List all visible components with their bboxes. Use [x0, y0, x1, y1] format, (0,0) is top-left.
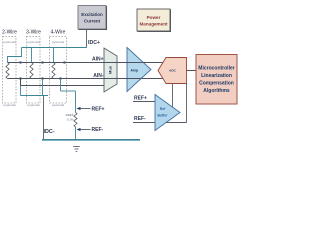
svg-text:0.1%: 0.1%: [67, 118, 74, 122]
svg-text:REF+: REF+: [92, 107, 105, 113]
svg-text:Algorithms: Algorithms: [203, 88, 230, 94]
wire return box1: [20, 86, 22, 96]
svg-text:(optional): (optional): [27, 40, 40, 44]
junction dots AIN+: [20, 62, 66, 64]
resistor RTD1: [6, 63, 9, 79]
svg-text:REF-: REF-: [92, 127, 104, 133]
wire ref sense box3: [60, 79, 62, 92]
svg-text:REF-: REF-: [134, 116, 146, 122]
wire AIN- through: [8, 78, 164, 80]
ground: [73, 147, 80, 152]
svg-text:Management: Management: [139, 22, 168, 27]
svg-text:Ref: Ref: [160, 107, 166, 111]
wire RREF bottom: [75, 127, 77, 140]
svg-text:(optional): (optional): [3, 103, 16, 107]
svg-text:Excitation: Excitation: [81, 12, 103, 17]
svg-text:Linearization: Linearization: [201, 73, 232, 79]
svg-text:Compensation: Compensation: [199, 81, 234, 87]
ref buffer U4: [155, 95, 180, 131]
3-wire sensor dashed box: [27, 37, 41, 104]
wire ref sense horizontal: [61, 90, 76, 92]
wire IDC- vertical: [43, 96, 45, 140]
4-wire sensor dashed box: [50, 37, 67, 104]
wire excitation drop box2: [31, 48, 33, 63]
svg-text:(optional): (optional): [3, 40, 16, 44]
junction dots AIN-: [20, 78, 62, 80]
REF+ tap arrow: [77, 107, 81, 110]
wire excitation drop box3: [53, 48, 55, 63]
svg-text:IDC-: IDC-: [44, 129, 55, 135]
wire to RREF top: [75, 91, 77, 113]
wire excitation drop box1: [8, 48, 22, 63]
wire buffer output to adc: [172, 84, 174, 108]
wire REF+ into buffer: [133, 101, 155, 103]
svg-text:4-Wire: 4-Wire: [51, 30, 66, 36]
wire ref minus to adc vertical: [186, 84, 188, 123]
resistor RREF: [74, 113, 77, 127]
svg-text:ADC: ADC: [169, 69, 176, 73]
svg-text:2-Wire: 2-Wire: [2, 30, 17, 36]
svg-text:(optional): (optional): [52, 40, 65, 44]
svg-text:Power: Power: [147, 15, 161, 20]
svg-text:Mux: Mux: [108, 65, 113, 74]
svg-text:Current: Current: [84, 19, 101, 24]
resistor RTD3: [52, 63, 55, 79]
power management box: [137, 9, 170, 31]
wire REF- to adc: [133, 122, 187, 124]
svg-text:3-Wire: 3-Wire: [26, 30, 41, 36]
svg-text:AIN+: AIN+: [92, 57, 104, 63]
REF- tap arrow: [77, 128, 81, 131]
svg-text:Microcontroller: Microcontroller: [198, 66, 234, 72]
wire mux third input: [21, 79, 105, 86]
adc U3: [158, 58, 187, 84]
wire IDC+ vertical: [86, 29, 88, 48]
wire adc to mcu: [187, 70, 197, 72]
svg-text:Buffer: Buffer: [158, 114, 169, 118]
mux U1: [104, 48, 117, 92]
wire return box2: [42, 79, 44, 96]
svg-text:RREF: RREF: [66, 113, 74, 117]
wire excitation bus: [22, 47, 87, 49]
svg-text:(optional): (optional): [52, 103, 65, 107]
resistor RTD2: [30, 63, 33, 79]
amp U2: [127, 48, 151, 92]
2-wire sensor dashed box: [3, 37, 17, 104]
excitation current box: [78, 6, 106, 30]
wire AIN+ through: [8, 62, 164, 64]
wire analog return bus: [42, 139, 140, 141]
wire return horizontal: [21, 95, 49, 97]
microcontroller box: [196, 55, 237, 105]
svg-text:Amp: Amp: [131, 69, 139, 73]
svg-text:IDC+: IDC+: [88, 40, 100, 46]
svg-text:REF+: REF+: [134, 96, 147, 102]
svg-text:(optional): (optional): [27, 103, 40, 107]
